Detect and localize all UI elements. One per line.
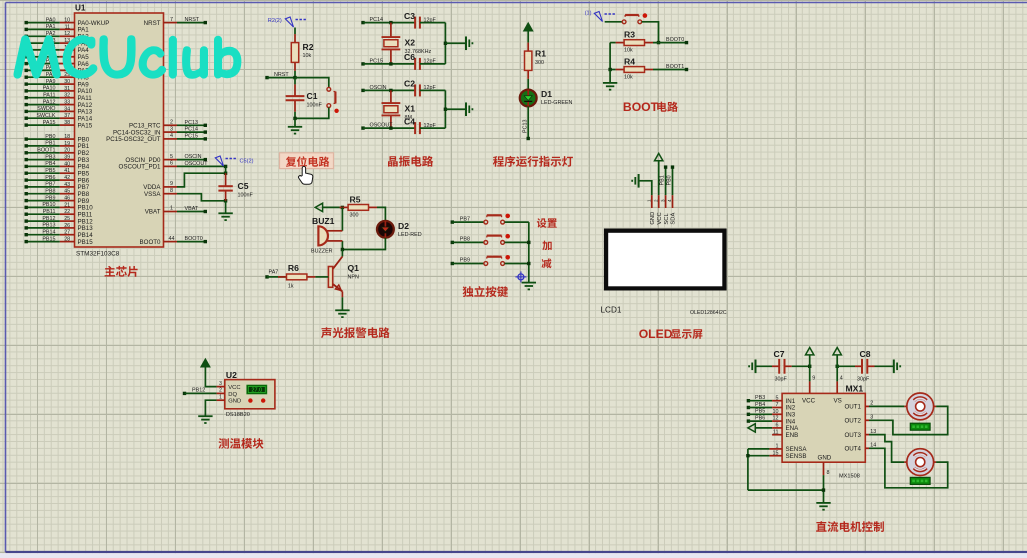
svg-text:PB7: PB7 xyxy=(45,182,55,188)
R2 reference label xyxy=(303,42,314,52)
net PB8 wire to key xyxy=(451,237,484,244)
svg-text:PA0: PA0 xyxy=(46,17,56,23)
svg-text:BOOT0: BOOT0 xyxy=(666,37,684,43)
wire R1 to D1 xyxy=(527,79,529,90)
svg-text:VSSA: VSSA xyxy=(144,191,161,198)
capacitor C6 [X2 block] xyxy=(415,58,420,70)
svg-text:300: 300 xyxy=(350,212,359,218)
U1 pin PB0 (18) with net PB0 xyxy=(25,134,90,144)
U1 pin PA5 (15) with net PA5 xyxy=(25,52,90,62)
right bus wire [X2 block] xyxy=(444,23,446,64)
svg-text:PA12: PA12 xyxy=(43,99,56,105)
wire reset button bottom to node xyxy=(295,108,329,119)
svg-text:PB10: PB10 xyxy=(42,202,55,208)
U1 pin PA11 (32) with net PA11 xyxy=(25,92,93,102)
svg-text:7: 7 xyxy=(776,402,779,408)
U1 pin PB9 (46) with net PB9 xyxy=(25,195,90,205)
ground below C5 xyxy=(218,213,232,220)
X1 reference label [X1 block] xyxy=(405,103,416,113)
svg-text:C2: C2 xyxy=(404,79,415,89)
MX1 pin IN3 (10) net PB5 xyxy=(747,409,796,419)
power symbol MX1 VCC xyxy=(806,348,814,367)
junction bus PB9 xyxy=(527,262,530,265)
section label 独立按键 xyxy=(463,286,509,297)
C6 reference label [X2 block] xyxy=(404,52,415,62)
svg-text:38: 38 xyxy=(64,120,70,126)
svg-text:9: 9 xyxy=(812,376,815,382)
wire key PB7 to bus xyxy=(505,221,529,223)
svg-text:BOOT0: BOOT0 xyxy=(140,239,162,246)
resistor R1 xyxy=(525,43,532,79)
svg-text:X2: X2 xyxy=(405,37,416,47)
LCD1 part value OLED12864I2C xyxy=(690,310,727,316)
wire C3 to right bus [X2 block] xyxy=(420,22,446,24)
U1 pin PB15 (28) with net PB15 xyxy=(25,236,94,246)
svg-text:25: 25 xyxy=(64,216,70,222)
MX1 pin GND (8) xyxy=(824,462,830,503)
svg-text:SWCLK: SWCLK xyxy=(36,113,56,119)
wire power to R1 xyxy=(527,31,529,43)
svg-text:PB4: PB4 xyxy=(45,161,55,167)
svg-text:D1: D1 xyxy=(541,89,552,99)
U1 pin PA8 (29) with net PA8 xyxy=(25,72,90,82)
svg-text:MX1508: MX1508 xyxy=(839,474,860,480)
svg-text:42: 42 xyxy=(64,175,70,181)
MX1 pin VS (4) xyxy=(837,366,843,393)
MX1 pin name VCC xyxy=(802,397,816,404)
R4 value 10k xyxy=(624,75,633,81)
D2 reference label xyxy=(398,221,409,231)
resistor R2 xyxy=(291,34,298,71)
Q1 value NPN xyxy=(348,275,359,281)
U2 part value DS18B20 xyxy=(226,412,250,418)
wire SENSA-SENSB bus down xyxy=(747,449,749,490)
ground keys xyxy=(522,283,536,290)
svg-text:PA7: PA7 xyxy=(269,270,279,276)
U1 pin PB14 (27) with net PB14 xyxy=(25,229,94,239)
U1 pin PA7 (17) with net PA7 xyxy=(25,65,90,75)
svg-text:PB6: PB6 xyxy=(45,175,55,181)
C5 value 100nF xyxy=(238,193,254,199)
wire C4 to right bus [X1 block] xyxy=(420,127,446,129)
ground U2 xyxy=(198,416,212,423)
svg-text:R5: R5 xyxy=(350,194,361,204)
svg-text:32: 32 xyxy=(64,93,70,99)
junction alarm VCC node xyxy=(341,206,344,209)
svg-text:10: 10 xyxy=(773,409,779,415)
svg-text:PB9: PB9 xyxy=(45,195,55,201)
svg-text:OUT1: OUT1 xyxy=(844,404,861,411)
junction GND node xyxy=(822,488,825,491)
svg-text:30pF: 30pF xyxy=(857,377,870,383)
BUZ1 reference label xyxy=(312,216,335,226)
svg-text:D2: D2 xyxy=(398,221,409,231)
blue marker R2(2) xyxy=(268,17,307,27)
wire R2 to NRST node xyxy=(294,71,296,78)
svg-text:3: 3 xyxy=(660,199,665,202)
junction R4 node xyxy=(608,68,611,71)
svg-text:PB1: PB1 xyxy=(660,175,666,185)
svg-text:2: 2 xyxy=(219,388,222,394)
blue marker C5(2) xyxy=(215,156,253,166)
MX1 pin ENA (6) with power arrow xyxy=(748,423,799,433)
U2 temperature display 27.0 xyxy=(247,385,267,394)
svg-text:1k: 1k xyxy=(288,283,294,289)
wire D2 to collector node xyxy=(342,238,385,250)
MX1 pin OUT4 (14) xyxy=(844,443,876,453)
wire key PB9 to bus xyxy=(505,263,529,265)
keys common bus wire xyxy=(528,222,530,283)
svg-text:PB11: PB11 xyxy=(43,209,56,215)
ground reset circuit xyxy=(288,127,302,134)
section label 晶振电路 xyxy=(388,156,433,167)
svg-text:(1): (1) xyxy=(585,11,592,17)
svg-text:10k: 10k xyxy=(624,75,633,81)
svg-text:PC15: PC15 xyxy=(185,133,199,139)
ground right of C8 (sideways) xyxy=(894,360,900,374)
wire C8 to ground xyxy=(875,365,894,367)
U2 pin GND (1) xyxy=(205,395,241,417)
svg-text:PA15: PA15 xyxy=(43,120,56,126)
LCD1 reference label xyxy=(601,306,622,315)
svg-text:R2(2): R2(2) xyxy=(268,18,282,24)
section label 程序运行指示灯 xyxy=(493,156,573,167)
svg-text:20: 20 xyxy=(64,148,70,154)
svg-text:OSCOUT_PD1: OSCOUT_PD1 xyxy=(119,164,162,171)
svg-text:PB0: PB0 xyxy=(45,134,55,140)
svg-text:BOOT1: BOOT1 xyxy=(37,148,55,154)
svg-text:6: 6 xyxy=(170,161,173,167)
capacitor C4 [X1 block] xyxy=(415,122,420,134)
left bus R3-R4 xyxy=(610,43,616,70)
ground OLED (sideways) xyxy=(632,174,652,195)
U1 pin PA9 (30) with net PA9 xyxy=(25,79,90,89)
power symbol U2 VCC xyxy=(201,359,216,386)
svg-text:27.0: 27.0 xyxy=(251,388,262,394)
svg-text:PB8: PB8 xyxy=(45,188,55,194)
push button key PB8 xyxy=(484,234,510,244)
MX1 pin SENSB (15) xyxy=(748,450,807,460)
net label BOOT1 xyxy=(666,64,684,70)
U1 pin PC13_RTC (2) net PC13 xyxy=(129,120,207,130)
transistor Q1 (NPN) xyxy=(328,250,342,298)
net PB9 wire to key xyxy=(451,258,484,265)
MX1 pin OUT3 (13) xyxy=(844,429,876,439)
U1 pin PA1 (11) with net PA1 xyxy=(25,24,90,33)
svg-text:LED-RED: LED-RED xyxy=(398,232,422,238)
svg-text:SCL: SCL xyxy=(664,213,670,225)
motor M2a label box xyxy=(910,423,930,430)
capacitor C3 [X2 block] xyxy=(415,17,420,29)
U1 pin PB10 (21) with net PB10 xyxy=(25,202,94,212)
svg-text:1: 1 xyxy=(776,444,779,450)
resistor R4 xyxy=(616,67,653,73)
svg-text:PC15-OSC32_OUT: PC15-OSC32_OUT xyxy=(106,136,161,143)
svg-text:34: 34 xyxy=(64,106,70,112)
key label 加 xyxy=(542,241,551,251)
svg-text:STM32F103C8: STM32F103C8 xyxy=(76,251,120,258)
wire node to ground xyxy=(294,118,296,126)
wire D1 to PC13 xyxy=(527,106,530,140)
LCD1 pin names GND VCC SCL SDA (rotated) xyxy=(650,212,677,225)
U1 pin PA12 (33) with net PA12 xyxy=(25,99,93,109)
wire C5 to ground xyxy=(225,201,227,214)
wire C6 to right bus [X2 block] xyxy=(420,63,446,65)
R6 value 1k xyxy=(288,283,294,289)
U1 pin PA4 (14) with net PA4 xyxy=(25,45,90,55)
power symbol OLED VCC xyxy=(655,153,663,195)
svg-text:39: 39 xyxy=(64,155,70,161)
section label 复位电路 (highlighted) xyxy=(280,153,334,169)
svg-text:R2: R2 xyxy=(303,42,314,52)
svg-text:PC14: PC14 xyxy=(370,17,384,23)
U2 body (DS18B20) xyxy=(225,380,275,409)
svg-text:8: 8 xyxy=(170,188,173,194)
svg-text:OUT4: OUT4 xyxy=(844,446,861,453)
svg-text:4: 4 xyxy=(170,133,173,139)
C8 value 30pF xyxy=(857,377,870,383)
svg-text:8: 8 xyxy=(827,470,830,476)
net label NRST xyxy=(274,72,289,78)
svg-text:2: 2 xyxy=(170,120,173,126)
R3 value 10k xyxy=(624,48,633,54)
U1 pin PB7 (43) with net PB7 xyxy=(25,182,90,192)
svg-text:PB15: PB15 xyxy=(78,239,94,246)
svg-text:U2: U2 xyxy=(226,370,237,380)
C7 value 30pF xyxy=(775,377,788,383)
C3 reference label [X2 block] xyxy=(404,11,415,21)
capacitor C1 xyxy=(286,78,305,112)
svg-text:R3: R3 xyxy=(624,30,635,40)
power symbol above R1 xyxy=(524,23,532,30)
svg-text:C1: C1 xyxy=(307,91,318,101)
svg-text:100nF: 100nF xyxy=(307,103,323,109)
svg-text:7: 7 xyxy=(170,17,173,23)
svg-text:DQ: DQ xyxy=(228,392,237,398)
U1 pin PA13 (34) with net SWDIO xyxy=(25,106,93,116)
resistor R6 xyxy=(278,274,315,280)
wire C2 to right bus [X1 block] xyxy=(420,89,446,91)
svg-text:PA15: PA15 xyxy=(78,122,93,129)
U1 pin VDDA (9) wire to C5 top xyxy=(143,173,225,191)
svg-text:30pF: 30pF xyxy=(775,377,788,383)
svg-text:41: 41 xyxy=(64,168,70,174)
svg-text:PC15: PC15 xyxy=(370,58,384,64)
motor M2a (top) xyxy=(904,393,936,420)
svg-text:Q1: Q1 xyxy=(348,263,360,273)
U1 pin PA0-WKUP (10) with net PA0 xyxy=(25,17,110,27)
svg-text:5: 5 xyxy=(170,154,173,160)
wire R4 right to BOOT1 xyxy=(653,68,688,71)
svg-text:28: 28 xyxy=(64,237,70,243)
section label 主芯片 xyxy=(105,266,138,277)
wire R6 to base xyxy=(315,276,328,278)
wire motor M2b right to OUT4 xyxy=(869,448,948,488)
svg-text:5: 5 xyxy=(776,395,779,401)
net PA7 wire xyxy=(265,270,286,279)
svg-text:4: 4 xyxy=(667,199,672,202)
MX1 pin name GND xyxy=(818,455,832,462)
C4 reference label [X1 block] xyxy=(404,116,415,126)
MX1 pin IN2 (7) net PB4 xyxy=(747,402,796,412)
U1 pin PA10 (31) with net PA10 xyxy=(25,86,93,96)
wire bus to ground xyxy=(609,70,611,83)
junction bus PB8 xyxy=(527,241,530,244)
svg-text:31: 31 xyxy=(64,86,70,92)
power symbol (left arrow) alarm xyxy=(315,203,322,211)
U1 pin PC14-OSC32_IN (3) net PC14 xyxy=(113,126,207,136)
right bus wire [X1 block] xyxy=(444,90,446,128)
svg-text:46: 46 xyxy=(64,196,70,202)
svg-text:R4: R4 xyxy=(624,57,635,67)
wire R3 right to BOOT0 xyxy=(653,41,688,44)
C1 value 100nF xyxy=(307,103,323,109)
section label OLED显示屏 xyxy=(639,327,703,341)
MCUclub watermark xyxy=(15,36,241,77)
svg-text:PA11: PA11 xyxy=(43,92,55,98)
svg-text:VS: VS xyxy=(834,397,842,404)
svg-text:OLED12864I2C: OLED12864I2C xyxy=(690,310,727,316)
svg-text:DS18B20: DS18B20 xyxy=(226,412,250,418)
U2 reference label xyxy=(226,370,237,380)
X2 reference label [X2 block] xyxy=(405,37,416,47)
svg-text:VCC: VCC xyxy=(802,397,816,404)
svg-text:43: 43 xyxy=(64,182,70,188)
svg-text:PB5: PB5 xyxy=(45,168,55,174)
junction bus to ground [X2 block] xyxy=(444,42,466,45)
svg-text:300: 300 xyxy=(535,60,544,66)
svg-text:OUT3: OUT3 xyxy=(844,432,861,439)
wire NRST node to reset button top xyxy=(295,78,329,88)
U1 pin PA2 (12) with net PA2 xyxy=(25,31,90,41)
svg-text:OUT2: OUT2 xyxy=(844,418,861,425)
U1 pin PB13 (26) with net PB13 xyxy=(25,223,94,233)
U1 pin PA14 (37) with net SWCLK xyxy=(25,113,93,123)
MX1 pin OUT1 (2) xyxy=(844,401,873,411)
OLED display LCD1 body xyxy=(604,229,727,291)
R5 reference label xyxy=(350,194,361,204)
D1 reference label xyxy=(541,89,552,99)
C6 value 12pF [X2 block] xyxy=(424,59,437,65)
svg-text:PB14: PB14 xyxy=(42,229,55,235)
key label 减 xyxy=(542,259,552,269)
C2 reference label [X1 block] xyxy=(404,79,415,89)
R5 value 300 xyxy=(350,212,359,218)
motor driver MX1 body (MX1508) xyxy=(782,393,865,462)
net PB0 wire to SDA xyxy=(666,165,674,195)
wire C7 to VCC node xyxy=(792,365,810,367)
R1 reference label xyxy=(535,49,546,59)
blue marker (1) xyxy=(585,11,616,22)
C1 reference label xyxy=(307,91,318,101)
svg-text:10: 10 xyxy=(64,18,70,24)
wire OUT1 to motor M2a left xyxy=(869,405,904,407)
wire marker to R2 xyxy=(294,28,296,35)
svg-text:X1: X1 xyxy=(405,103,416,113)
section label BOOT电路 xyxy=(623,100,678,114)
U2 indicator dots xyxy=(248,398,265,402)
svg-text:PC13: PC13 xyxy=(185,120,199,126)
svg-text:GND: GND xyxy=(818,455,832,462)
capacitor C7 xyxy=(756,359,792,374)
U1 pin VBAT (1) net VBAT xyxy=(145,206,207,216)
ground MX1 xyxy=(816,503,830,510)
LED D1 (green) xyxy=(520,90,537,107)
svg-text:PB3: PB3 xyxy=(45,154,55,160)
svg-text:PB0: PB0 xyxy=(666,175,672,185)
wire NRST stub left xyxy=(265,76,295,79)
svg-text:PA10: PA10 xyxy=(43,86,56,92)
svg-text:C5: C5 xyxy=(238,181,249,191)
junction bus to ground [X1 block] xyxy=(444,108,466,111)
net OSCOUT wire [X1 block] xyxy=(361,123,415,130)
capacitor C8 xyxy=(837,359,874,374)
svg-text:1: 1 xyxy=(170,206,173,212)
power symbol MX1 VS xyxy=(833,348,841,367)
R4 reference label xyxy=(624,57,635,67)
mouse hand cursor xyxy=(299,166,313,184)
svg-text:27: 27 xyxy=(64,230,70,236)
MX1 pin name VS xyxy=(834,397,842,404)
svg-text:PB13: PB13 xyxy=(42,223,55,229)
svg-text:1: 1 xyxy=(219,395,222,401)
svg-text:OSCOUT: OSCOUT xyxy=(185,161,209,167)
boot push button xyxy=(622,13,647,23)
MX1 pin OUT2 (3) xyxy=(844,415,873,425)
svg-text:1: 1 xyxy=(647,199,652,202)
svg-text:OSCIN: OSCIN xyxy=(185,154,202,160)
svg-text:11: 11 xyxy=(65,24,71,30)
net PC15 wire [X2 block] xyxy=(361,58,415,65)
U1 pin OSCOUT_PD1 (6) net OSCOUT xyxy=(119,161,228,171)
C2 value 12pF [X1 block] xyxy=(424,85,437,91)
svg-text:26: 26 xyxy=(64,223,70,229)
MX1 part value MX1508 xyxy=(839,474,860,480)
net label BOOT0 xyxy=(666,37,684,43)
svg-text:R6: R6 xyxy=(288,263,299,273)
U1 pin BOOT0 (44) net BOOT0 xyxy=(140,236,207,246)
X1 value 8M [X1 block] xyxy=(405,115,413,121)
ground alarm circuit xyxy=(335,310,349,317)
U1 part value STM32F103C8 xyxy=(76,251,120,258)
svg-text:GND: GND xyxy=(650,212,656,225)
MX1 pin IN4 (12) net PB6 xyxy=(747,416,796,426)
svg-text:3: 3 xyxy=(170,126,173,132)
LED D2 (red) xyxy=(377,221,394,238)
junction BOOT0 node xyxy=(657,41,660,44)
ground BOOT circuit xyxy=(603,83,617,90)
junction NRST node xyxy=(293,76,296,79)
net OSCIN wire [X1 block] xyxy=(361,85,415,92)
MX1 pin SENSA (1) xyxy=(748,444,807,454)
U1 pin PB11 (22) with net PB11 xyxy=(25,209,93,219)
push button key PB7 xyxy=(484,214,510,224)
U1 pin PB12 (25) with net PB12 xyxy=(25,216,94,226)
U1 pin PB3 (39) with net PB3 xyxy=(25,154,90,164)
svg-text:19: 19 xyxy=(64,141,70,147)
svg-text:BOOT1: BOOT1 xyxy=(666,64,684,70)
svg-text:3: 3 xyxy=(219,381,222,387)
capacitor C2 [X1 block] xyxy=(415,84,420,96)
svg-text:MX1: MX1 xyxy=(846,384,864,394)
wire key PB8 to bus xyxy=(505,241,529,243)
R2 value 10k xyxy=(303,53,312,59)
crystal X2 [X2 block] xyxy=(382,23,401,64)
U1 pin PB6 (42) with net PB6 xyxy=(25,175,90,185)
LCD1 pin stubs GND VCC SCL SDA xyxy=(647,195,673,208)
section label 测温模块 xyxy=(219,438,264,449)
svg-text:LCD1: LCD1 xyxy=(601,306,622,315)
